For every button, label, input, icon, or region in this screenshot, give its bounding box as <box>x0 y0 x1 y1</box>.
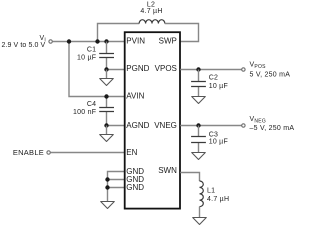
svg-text:10 µF: 10 µF <box>209 138 228 145</box>
node PVIN/C1 junction <box>104 39 108 43</box>
svg-text:5 V, 250 mA: 5 V, 250 mA <box>250 72 291 79</box>
capacitor C3 <box>191 126 228 153</box>
node GND bus junction 1 <box>105 177 109 181</box>
wire PGND <box>107 69 125 71</box>
node GND bus junction 2 <box>105 185 109 189</box>
svg-text:VPOS: VPOS <box>155 64 177 73</box>
svg-text:PVIN: PVIN <box>126 36 145 45</box>
svg-text:10 µF: 10 µF <box>209 83 228 90</box>
ground (L1) <box>193 218 207 225</box>
svg-text:EN: EN <box>126 148 137 157</box>
svg-text:10 µF: 10 µF <box>77 54 96 61</box>
capacitor C1 <box>77 42 114 70</box>
node VNEG/C3 junction <box>196 123 200 127</box>
node PVIN/AVIN junction <box>67 39 71 43</box>
svg-text:AGND: AGND <box>126 121 149 130</box>
node C1/PGND junction <box>104 67 108 71</box>
svg-text:100 nF: 100 nF <box>73 109 96 116</box>
svg-text:C3: C3 <box>209 131 218 138</box>
wire SWN <box>180 173 199 182</box>
svg-text:L1: L1 <box>207 187 215 194</box>
wire top loop left (PVIN junction up to L2) <box>98 24 140 42</box>
terminal ENABLE <box>13 148 50 157</box>
capacitor C4 <box>73 97 114 126</box>
node C4/AGND junction <box>104 123 108 127</box>
svg-text:4.7 µH: 4.7 µH <box>207 196 229 203</box>
wire L1 to ground <box>199 207 201 218</box>
wire VPOS <box>180 69 241 71</box>
wire AVIN branch <box>69 42 125 97</box>
node AVIN/C4 junction <box>104 94 108 98</box>
wire VNEG <box>180 125 241 127</box>
wire GND bus <box>108 172 125 202</box>
svg-text:GND: GND <box>126 183 144 192</box>
capacitor C2 <box>191 70 228 97</box>
inductor L1 <box>200 181 230 207</box>
ground (PGND/C1) <box>100 70 114 86</box>
svg-text:–5 V, 250 mA: –5 V, 250 mA <box>250 125 295 132</box>
IC U1 TPS65133 body <box>125 32 180 208</box>
ground (AGND/C4) <box>100 126 114 142</box>
svg-text:ENABLE: ENABLE <box>13 148 44 157</box>
ground (C3) <box>192 153 206 160</box>
svg-text:VNEG: VNEG <box>154 121 177 130</box>
node VPOS/C2 junction <box>196 67 200 71</box>
svg-text:C4: C4 <box>87 101 96 108</box>
wire top loop right (L2 down to SWP pin) <box>165 24 199 42</box>
wire AGND <box>107 125 125 127</box>
terminal VPOS output <box>242 62 291 79</box>
svg-text:SWN: SWN <box>158 166 177 175</box>
svg-text:C2: C2 <box>209 75 218 82</box>
ground (GND bus) <box>101 202 115 209</box>
wire EN <box>51 152 125 154</box>
ground (C2) <box>192 97 206 104</box>
svg-text:AVIN: AVIN <box>126 91 144 100</box>
node PVIN/L2 junction <box>95 39 99 43</box>
terminal VNEG output <box>242 116 295 132</box>
svg-text:PGND: PGND <box>126 64 149 73</box>
svg-text:2.9 V to 5.0 V: 2.9 V to 5.0 V <box>1 42 45 49</box>
svg-text:C1: C1 <box>87 46 96 53</box>
svg-text:4.7 µH: 4.7 µH <box>140 8 162 15</box>
terminal VI input <box>1 35 52 49</box>
inductor L2 <box>139 2 165 24</box>
wire VI to PVIN <box>53 41 125 43</box>
svg-text:SWP: SWP <box>159 36 177 45</box>
